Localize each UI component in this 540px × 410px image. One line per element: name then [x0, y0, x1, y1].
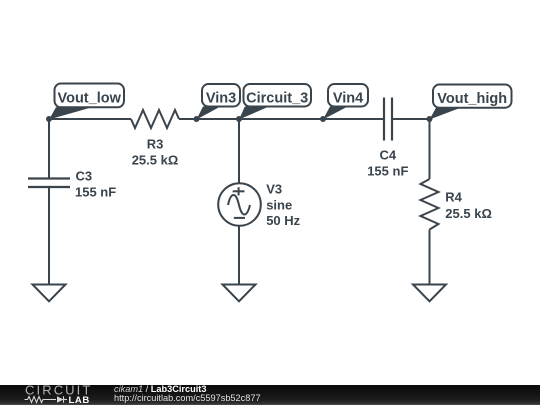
net label Vin4	[323, 84, 368, 120]
svg-text:Vout_high: Vout_high	[437, 91, 507, 107]
node Vout_low	[46, 116, 52, 122]
svg-text:Vin3: Vin3	[206, 90, 236, 106]
wire: V3 bottom to middle ground	[238, 226, 240, 285]
svg-text:155 nF: 155 nF	[367, 163, 408, 178]
svg-text:Vout_low: Vout_low	[58, 91, 122, 107]
node Vout_high	[427, 116, 433, 122]
capacitor C4 plates	[383, 98, 385, 141]
svg-text:Vin4: Vin4	[333, 90, 363, 106]
ground left	[33, 285, 66, 302]
V3 sine wave	[228, 195, 250, 215]
resistor R4	[421, 179, 439, 230]
V3 minus sign	[234, 217, 245, 219]
voltage source V3 circle	[218, 183, 261, 226]
wire: C3 bottom plate to left ground	[48, 187, 50, 285]
svg-text:C4: C4	[379, 147, 396, 162]
svg-text:C3: C3	[76, 168, 93, 183]
footer credit text	[114, 384, 261, 403]
CircuitLab footer bar	[0, 385, 540, 405]
net label Vout_low	[49, 84, 124, 120]
wire: Vout_high node down to R4	[429, 119, 431, 179]
ground right	[413, 285, 446, 302]
svg-text:V3: V3	[266, 181, 282, 196]
wire: Vout_low node down to C3	[48, 119, 50, 179]
svg-text:25.5 kΩ: 25.5 kΩ	[445, 206, 492, 221]
svg-text:155 nF: 155 nF	[75, 184, 116, 199]
svg-text:R4: R4	[445, 190, 462, 205]
svg-text:LAB: LAB	[69, 395, 90, 405]
svg-text:50 Hz: 50 Hz	[266, 213, 300, 228]
resistor R3	[131, 110, 179, 128]
wire: Vin4 node to C4 left plate	[323, 118, 384, 120]
CircuitLab logo	[20, 385, 120, 405]
wire: Circuit_3 node down to V3	[238, 119, 240, 183]
node Circuit_3	[236, 116, 242, 122]
net label Vout_high	[430, 85, 512, 120]
ground middle	[223, 285, 256, 302]
svg-text:Circuit_3: Circuit_3	[246, 90, 308, 106]
net label Circuit_3	[239, 84, 311, 120]
net label Vin3	[197, 84, 241, 120]
wire: R4 bottom to right ground	[429, 230, 431, 285]
wire: R3 right to Vin3 node	[179, 118, 197, 120]
wire: Vin3 node through Circuit_3 node to Vin4 node	[197, 118, 324, 120]
capacitor C3 plates	[28, 177, 70, 179]
svg-text:25.5 kΩ: 25.5 kΩ	[132, 152, 179, 167]
svg-text:sine: sine	[266, 197, 292, 212]
node Vin3	[194, 116, 200, 122]
svg-text:R3: R3	[147, 137, 164, 152]
V3 plus sign	[233, 190, 245, 192]
wire: Vout_low node to R3 left	[49, 118, 131, 120]
node Vin4	[320, 116, 326, 122]
wire: C4 right plate to Vout_high node	[392, 118, 430, 120]
